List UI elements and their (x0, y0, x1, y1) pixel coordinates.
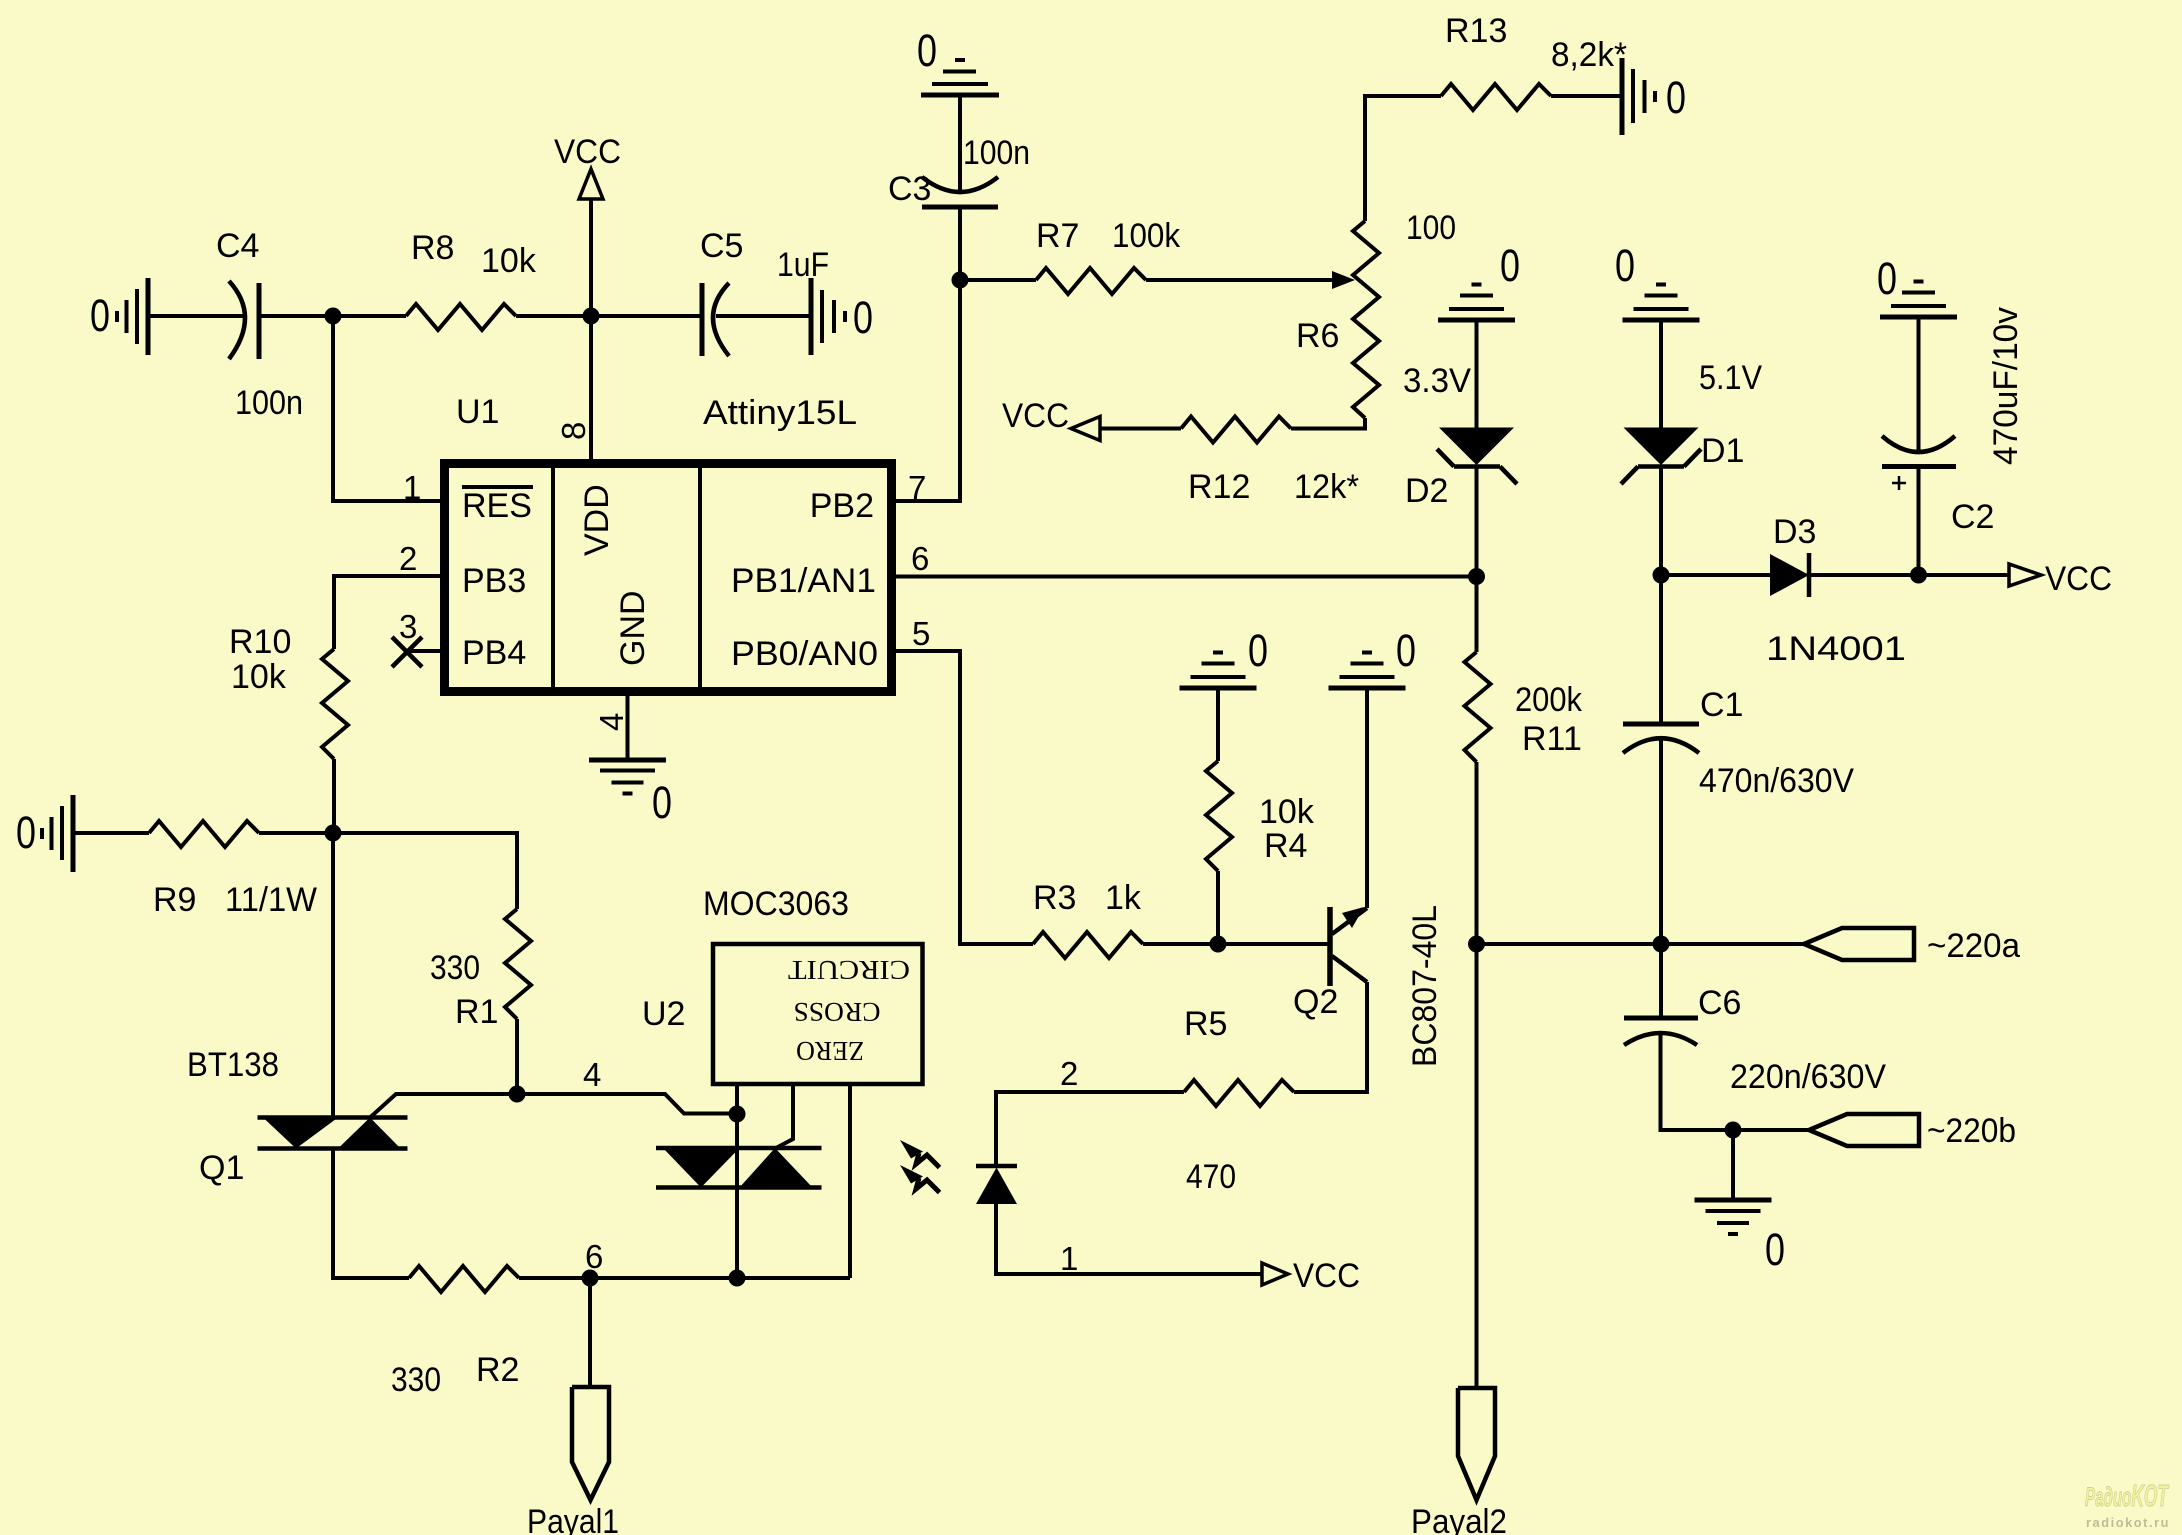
wire ground to D2 (1475, 320, 1479, 428)
svg-text:C2: C2 (1951, 498, 1994, 536)
wire D2 to node (1475, 467, 1479, 577)
node junction MOC pin4 (729, 1106, 746, 1123)
wire ground to C3 (958, 95, 962, 194)
svg-text:0: 0 (1765, 1224, 1785, 1275)
resistor R13 (1441, 84, 1551, 110)
capacitor C3 (922, 177, 998, 207)
zener D2 (1437, 428, 1517, 485)
wire pin2 to R10 (334, 576, 440, 649)
light arrow upper (900, 1140, 940, 1168)
svg-text:R9: R9 (153, 881, 196, 919)
svg-text:0: 0 (1248, 625, 1268, 676)
svg-text:CIRCUIT: CIRCUIT (787, 955, 910, 985)
wire D3 to C2 node (1809, 573, 1919, 577)
wire Q1 top (331, 833, 335, 1118)
svg-text:BC807-40L: BC807-40L (1406, 905, 1444, 1067)
potentiometer R6 body (1353, 221, 1379, 418)
zener D1 (1621, 428, 1701, 485)
svg-text:C4: C4 (216, 227, 259, 265)
node junction C1/C6/220a (1653, 936, 1670, 953)
svg-text:PB4: PB4 (462, 634, 526, 672)
power VCC arrow top (579, 169, 603, 316)
svg-text:ZERO: ZERO (796, 1036, 864, 1066)
wire MOC middle pin (776, 1084, 793, 1148)
connector Payal1 (572, 1387, 609, 1500)
svg-text:100n: 100n (235, 384, 303, 422)
node junction R3/R4/base (1210, 936, 1227, 953)
svg-text:10k: 10k (231, 658, 287, 696)
svg-text:Payal2: Payal2 (1411, 1503, 1507, 1535)
ground 0 above D2 (dome) (1438, 285, 1515, 321)
wire LED top from R5 row (996, 1092, 1184, 1166)
wire MOC right pin (848, 1084, 852, 1278)
wire Payal1 (588, 1278, 592, 1387)
wire R13 to ground (1551, 94, 1622, 98)
potentiometer R6 wiper arrow (1332, 271, 1355, 289)
svg-text:0: 0 (16, 807, 36, 858)
ground 0 below 220b (earth) (1695, 1200, 1772, 1234)
wire junction down to pin7 (896, 280, 960, 501)
wire C6 to 220b node (1661, 1035, 1734, 1130)
wire R11 leads (1475, 577, 1479, 653)
wire R8 leads (333, 314, 406, 318)
wire MOC left pin (735, 1084, 739, 1148)
node junction C4/R8/pin1 (325, 308, 342, 325)
resistor R9 (149, 821, 259, 847)
node junction C6/220b/ground (1725, 1122, 1742, 1139)
wire R1 to gate node (515, 1019, 519, 1094)
svg-text:10k: 10k (1259, 793, 1315, 831)
wire R10 to junction (332, 759, 336, 833)
svg-text:R12: R12 (1188, 468, 1250, 506)
svg-text:7: 7 (908, 469, 926, 506)
svg-text:U2: U2 (642, 995, 685, 1033)
wire opto triac bottom (735, 1148, 739, 1278)
svg-text:R5: R5 (1184, 1005, 1227, 1043)
svg-text:12k*: 12k* (1294, 468, 1359, 506)
svg-text:0: 0 (853, 292, 873, 343)
node junction D3/C2/VCC (1910, 567, 1927, 584)
svg-text:GND: GND (614, 590, 652, 666)
svg-text:C5: C5 (700, 227, 743, 265)
transistor Q2 BC807 (1330, 907, 1367, 986)
svg-text:R7: R7 (1036, 217, 1079, 255)
diode D3 1N4001 (1770, 553, 1809, 597)
wire R11 node to Payal2 (1475, 944, 1479, 1388)
svg-text:2: 2 (1060, 1055, 1078, 1092)
svg-text:100n: 100n (963, 134, 1030, 172)
wire gate row to triac (370, 1094, 517, 1118)
ground 0 at pin4 (earth) (589, 760, 666, 794)
wire ground to C2 (1917, 317, 1921, 452)
node junction VCC/R8/C5/pin8 (583, 308, 600, 325)
capacitor C2 (polar) (1882, 436, 1956, 490)
resistor R3 zigzag (1033, 932, 1143, 958)
wire pin6 to D2 node (896, 575, 1477, 579)
wire pin4 to ground (626, 692, 630, 760)
wire 220a row (1477, 942, 1805, 946)
svg-text:5.1V: 5.1V (1699, 359, 1762, 397)
svg-text:PB3: PB3 (462, 562, 526, 600)
wire R3 to node (1143, 942, 1218, 946)
IC U2 MOC3063 box (713, 944, 923, 1084)
overline of RES (462, 485, 533, 489)
svg-text:~220b: ~220b (1927, 1112, 2016, 1150)
wire C6 top (1659, 944, 1663, 1018)
wire C5 to ground (716, 314, 811, 318)
svg-text:Q1: Q1 (199, 1149, 244, 1187)
wire C1 top (1659, 575, 1663, 724)
svg-text:1N4001: 1N4001 (1766, 630, 1906, 668)
wire ground to C4 (150, 314, 246, 318)
node junction C3/R7/pin7 (952, 272, 969, 289)
svg-text:0: 0 (1396, 625, 1416, 676)
svg-text:0: 0 (90, 290, 110, 341)
svg-text:5: 5 (912, 615, 930, 652)
node junction D1/D3/C1 (1653, 567, 1670, 584)
wire Q1 bottom (333, 1149, 409, 1279)
svg-text:PB0/AN0: PB0/AN0 (731, 635, 878, 673)
power VCC arrow right of C2 (1919, 564, 2042, 586)
no-connect X on pin3 (392, 637, 422, 667)
wire pot bottom to R12 (1291, 418, 1365, 429)
wire node to D3 (1661, 573, 1770, 577)
wire junction to R1 (333, 833, 517, 909)
svg-text:2: 2 (399, 540, 417, 577)
wire C2 to node (1917, 467, 1921, 576)
svg-text:D1: D1 (1701, 432, 1744, 470)
ground 0 at R13 (right, rotated) (1622, 58, 1655, 135)
svg-text:C6: C6 (1698, 984, 1741, 1022)
power VCC arrow at LED pin1 (1262, 1263, 1288, 1285)
svg-text:1: 1 (403, 469, 421, 506)
svg-text:330: 330 (391, 1361, 441, 1399)
svg-text:R6: R6 (1296, 317, 1339, 355)
wire to 220b connector (1733, 1128, 1809, 1132)
svg-text:VCC: VCC (554, 133, 621, 171)
wire C3 to junction (958, 207, 962, 280)
svg-text:R1: R1 (455, 993, 498, 1031)
IC U1 divider right (698, 467, 702, 688)
svg-text:100k: 100k (1112, 217, 1181, 255)
resistor R5 (1184, 1080, 1294, 1106)
ground 0 at R9 (left, rotated) (42, 795, 73, 872)
wire pot top to R13 (1365, 96, 1441, 221)
svg-text:Payal1: Payal1 (527, 1503, 619, 1535)
svg-text:VCC: VCC (1293, 1257, 1360, 1295)
wire junction down to pin 1 (333, 316, 440, 501)
node junction R9/R10/Q1/R1 (325, 825, 342, 842)
watermark RadioKOT (2085, 1478, 2170, 1530)
svg-text:8: 8 (555, 422, 592, 440)
connector ~220a (1804, 928, 1914, 960)
svg-text:1: 1 (1060, 1240, 1078, 1277)
svg-text:0: 0 (1615, 240, 1635, 291)
svg-text:D2: D2 (1405, 472, 1448, 510)
ground 0 above D1 (dome) (1623, 285, 1700, 321)
svg-text:D3: D3 (1773, 513, 1816, 551)
svg-text:R10: R10 (229, 623, 291, 661)
opto triac in U2 (656, 1148, 822, 1188)
wire pin8 (589, 316, 593, 463)
svg-text:6: 6 (911, 540, 929, 577)
svg-text:10k: 10k (481, 242, 537, 280)
wire LED bottom to VCC (996, 1204, 1262, 1274)
resistor R12 (1181, 417, 1291, 443)
svg-text:330: 330 (430, 949, 480, 987)
svg-text:R13: R13 (1445, 12, 1507, 50)
capacitor C1 (1623, 724, 1699, 753)
svg-text:U1: U1 (456, 393, 499, 431)
capacitor C4 (229, 281, 259, 359)
wire R2 to node 6 (519, 1276, 590, 1280)
node junction R11/220a (1468, 936, 1485, 953)
wire C4 to junction (259, 314, 333, 318)
svg-text:R8: R8 (411, 229, 454, 267)
resistor R8 (406, 304, 516, 330)
svg-text:6: 6 (585, 1238, 603, 1275)
svg-text:0: 0 (652, 777, 672, 828)
svg-text:11/1W: 11/1W (225, 881, 317, 919)
svg-text:C3: C3 (888, 170, 931, 208)
svg-text:220n/630V: 220n/630V (1730, 1058, 1886, 1096)
capacitor C5 (702, 283, 729, 356)
wire R7 leads (960, 278, 1036, 282)
svg-text:VCC: VCC (1002, 397, 1069, 435)
svg-text:MOC3063: MOC3063 (703, 885, 849, 923)
ground 0 above C2 (dome) (1880, 282, 1957, 318)
wire junction to C5 (591, 314, 702, 318)
node junction R2/Payal1 (582, 1270, 599, 1287)
svg-text:C1: C1 (1700, 686, 1743, 724)
svg-text:3: 3 (399, 608, 417, 645)
resistor R11 (1465, 652, 1491, 762)
wire node to ground (1731, 1130, 1735, 1200)
wire gate row to MOC pin4 (517, 1094, 737, 1114)
svg-text:470uF/10v: 470uF/10v (1987, 307, 2025, 465)
svg-text:R2: R2 (476, 1351, 519, 1389)
svg-text:8,2k*: 8,2k* (1551, 36, 1627, 74)
svg-text:radiokot.ru: radiokot.ru (2086, 1515, 2170, 1530)
svg-text:VDD: VDD (578, 484, 616, 556)
svg-text:PB1/AN1: PB1/AN1 (731, 562, 876, 600)
svg-text:Attiny15L: Attiny15L (703, 394, 857, 432)
wire pin5 to R3 row (896, 651, 1033, 944)
wire D1 to node (1659, 467, 1663, 576)
svg-text:1k: 1k (1105, 879, 1142, 917)
light arrow lower (900, 1165, 940, 1193)
svg-text:3.3V: 3.3V (1403, 362, 1471, 400)
svg-text:470: 470 (1186, 1158, 1236, 1196)
resistor R10 (322, 649, 348, 759)
svg-text:RES: RES (462, 487, 532, 525)
wire R9 to junction (259, 831, 333, 835)
svg-text:4: 4 (593, 713, 630, 731)
svg-text:4: 4 (583, 1056, 601, 1093)
wire R12 to VCC arrow (1100, 427, 1181, 431)
svg-text:R11: R11 (1522, 720, 1582, 758)
pin3 stub (406, 649, 440, 653)
svg-text:470n/630V: 470n/630V (1699, 762, 1854, 800)
svg-text:Q2: Q2 (1293, 983, 1338, 1021)
node junction D2/pin6/R11 (1468, 568, 1485, 585)
wire ground to D1 (1659, 320, 1663, 428)
wire bottom row (590, 1276, 850, 1280)
IC U1 box (445, 464, 892, 692)
svg-text:0: 0 (1500, 240, 1520, 291)
ground 0 at C4 (left, rotated) (117, 278, 148, 355)
svg-text:~220a: ~220a (1927, 927, 2020, 965)
resistor R2 (409, 1266, 519, 1292)
ground 0 above C3 (dome) (921, 60, 999, 95)
wire base (1218, 942, 1328, 946)
svg-text:CROSS: CROSS (794, 997, 881, 1027)
connector ~220b (1809, 1114, 1919, 1146)
svg-text:0: 0 (1666, 72, 1686, 123)
svg-text:BT138: BT138 (187, 1046, 279, 1084)
node junction MOC triac bottom (729, 1270, 746, 1287)
connector Payal2 (1458, 1388, 1495, 1500)
svg-text:1uF: 1uF (777, 246, 829, 284)
svg-text:R4: R4 (1264, 827, 1307, 865)
svg-text:PB2: PB2 (810, 487, 874, 525)
svg-text:0: 0 (1877, 253, 1897, 304)
svg-text:0: 0 (917, 25, 937, 76)
triac Q1 BT138 (258, 1118, 408, 1149)
IC U1 divider left (551, 467, 555, 688)
wire ground to R9 (75, 831, 149, 835)
wire R5 to Q2 collector (1294, 982, 1367, 1092)
svg-text:200k: 200k (1515, 681, 1583, 719)
wire Q2 emitter to ground (1365, 688, 1369, 908)
ground 0 above Q2 (dome) (1329, 653, 1406, 689)
ground 0 at C5 (right, rotated) (811, 278, 845, 355)
LED of optocoupler (976, 1166, 1017, 1204)
capacitor C6 (1624, 1018, 1698, 1045)
wire R4 leads (1216, 688, 1220, 761)
svg-text:РадиоKOT: РадиоKOT (2085, 1478, 2170, 1513)
resistor R7 (1036, 268, 1146, 294)
resistor R4 (1206, 761, 1232, 871)
power VCC arrow at R12 (left) (1071, 417, 1100, 441)
svg-text:VCC: VCC (2045, 560, 2112, 598)
svg-text:R3: R3 (1033, 879, 1076, 917)
ground 0 above R4 (dome) (1180, 653, 1257, 689)
node junction R1/gate/pin4 (509, 1086, 526, 1103)
resistor R1 (505, 909, 531, 1019)
svg-text:100: 100 (1406, 209, 1456, 247)
wire C1 to 220a node (1659, 740, 1663, 944)
